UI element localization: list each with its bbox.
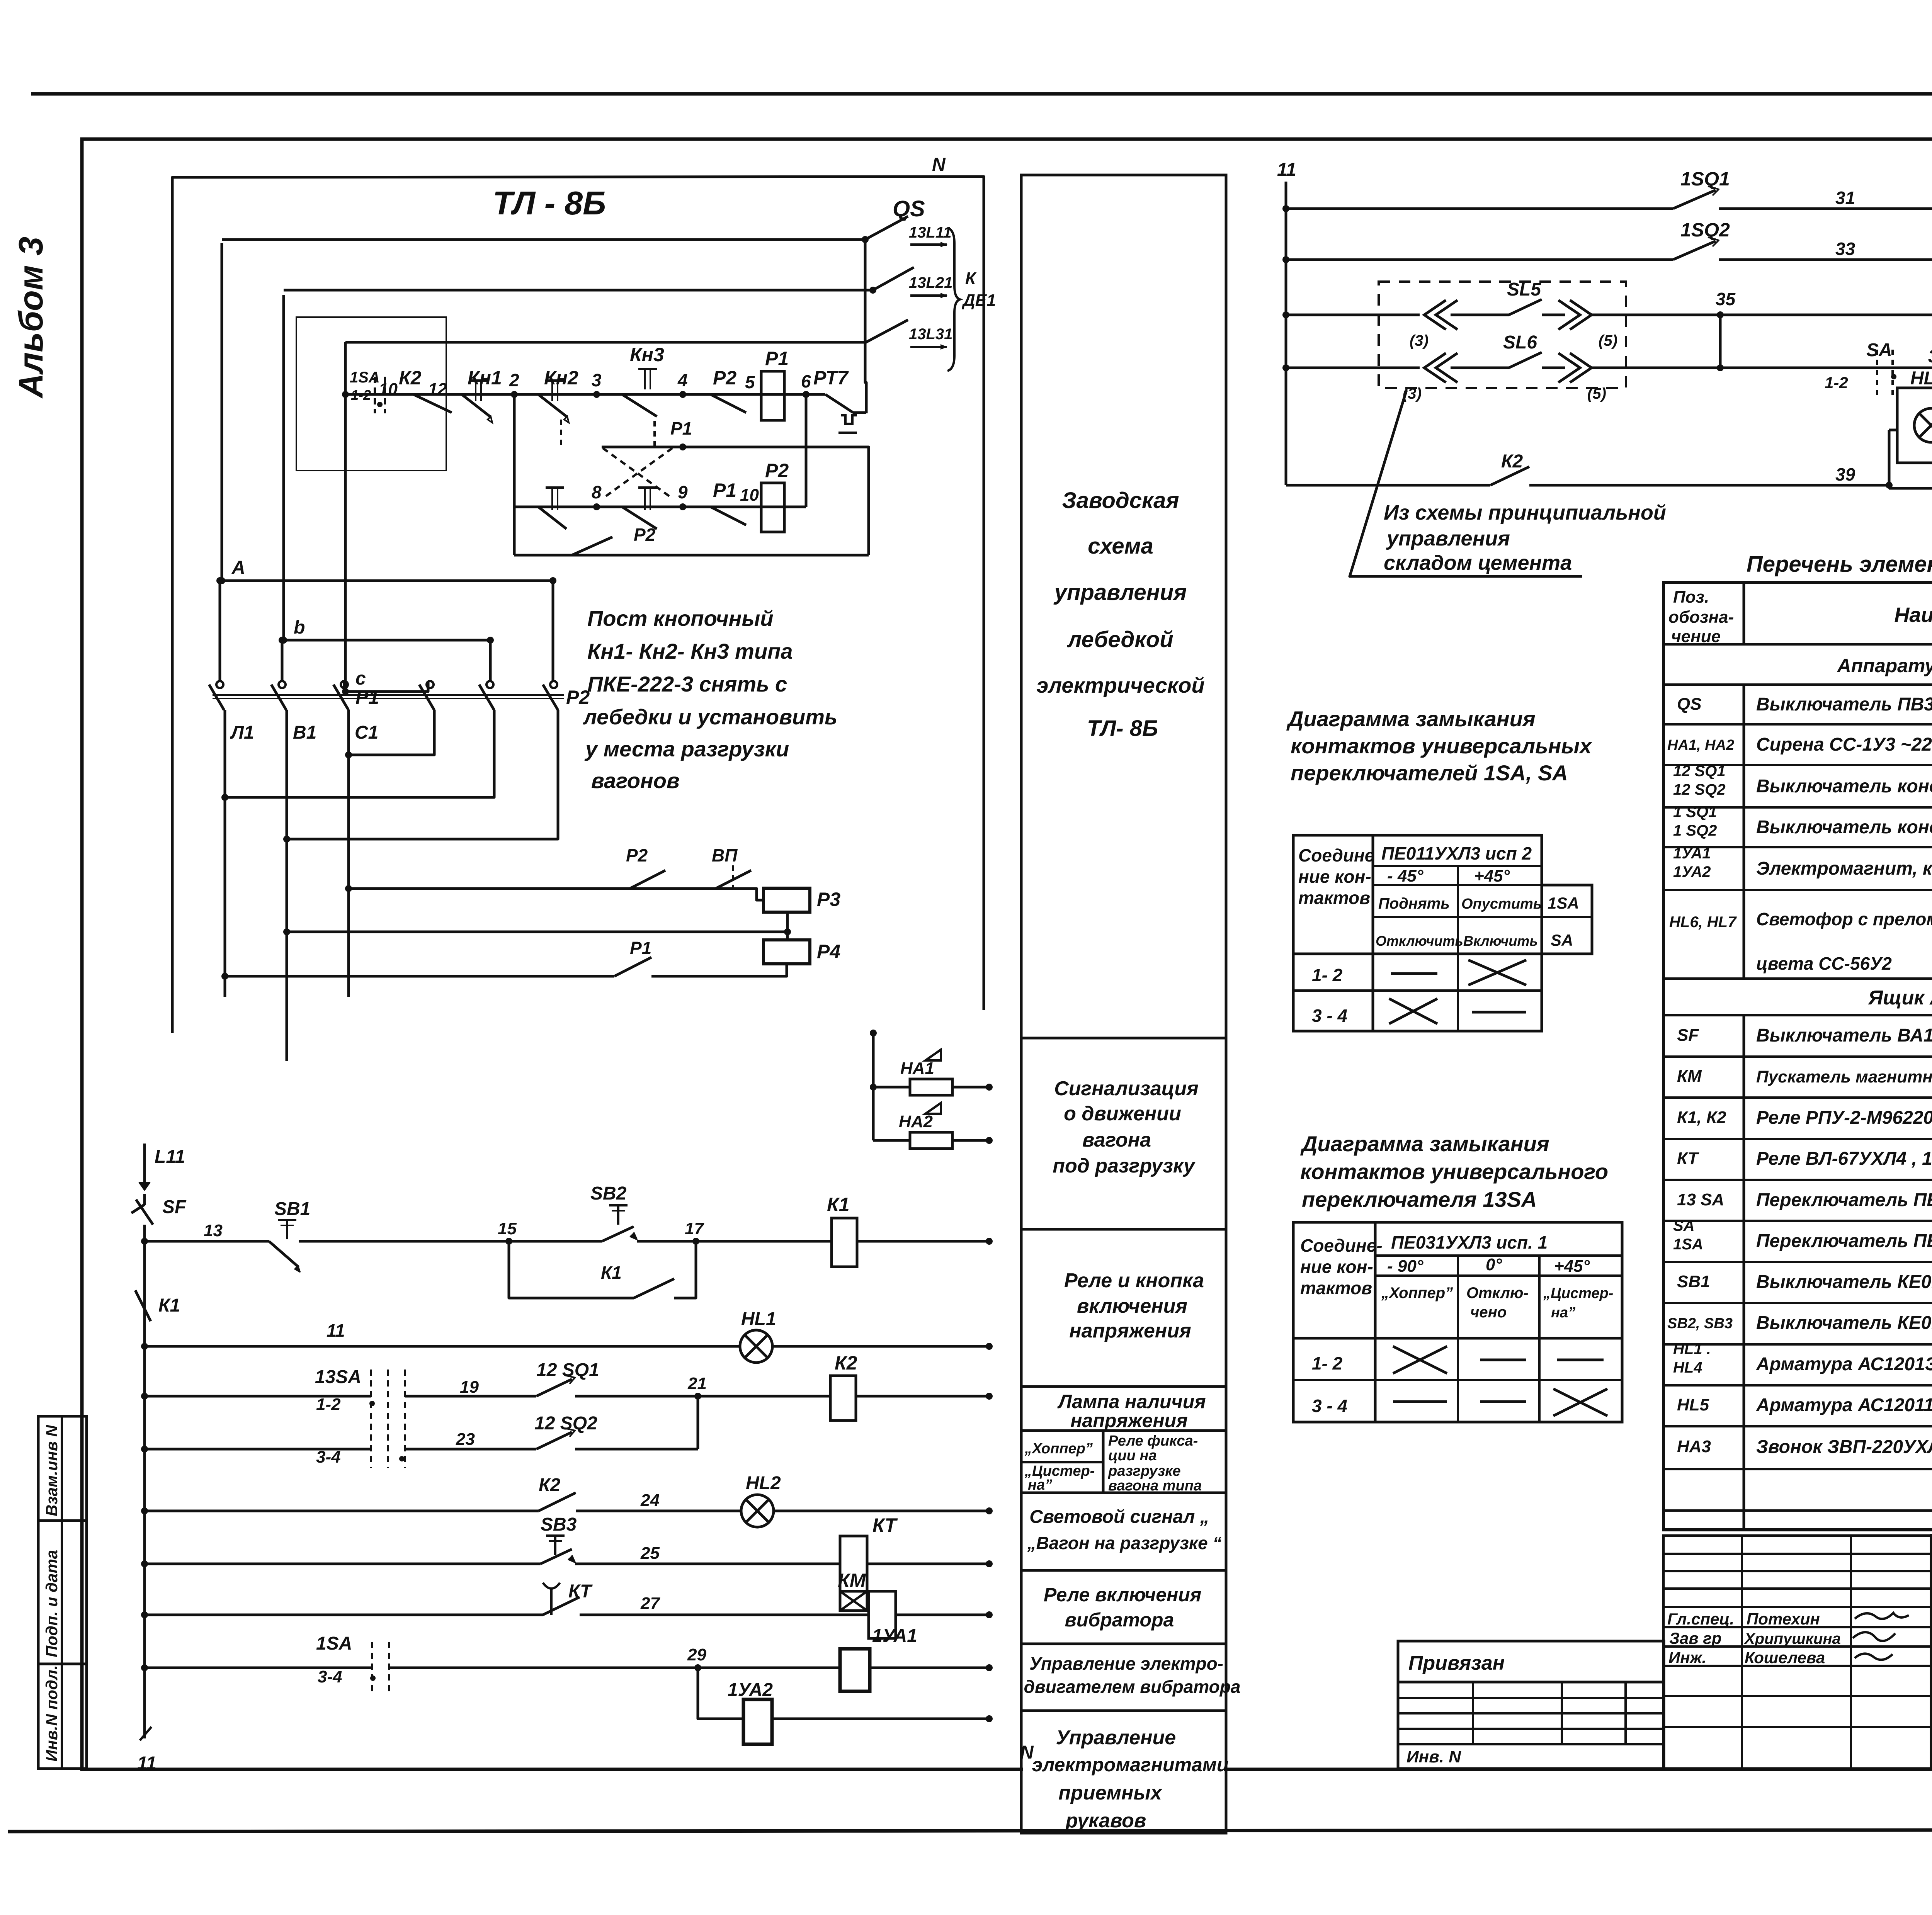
rung 29 1SA 1UA1 (141, 1664, 148, 1671)
svg-text:Р3: Р3 (817, 889, 840, 910)
svg-text:Р2: Р2 (626, 845, 648, 865)
svg-text:13: 13 (204, 1221, 223, 1240)
rung 23 12SQ2 (141, 1446, 148, 1453)
svg-text:SL5: SL5 (1507, 279, 1541, 300)
svg-text:SL6: SL6 (1503, 332, 1537, 353)
svg-text:5: 5 (745, 372, 755, 392)
svg-text:HL5: HL5 (1677, 1395, 1709, 1414)
svg-text:8: 8 (592, 482, 602, 502)
svg-text:„Хоппер”: „Хоппер” (1024, 1441, 1093, 1457)
svg-text:3 - 4: 3 - 4 (1312, 1006, 1347, 1026)
rung 35 SL5 HL5 (1282, 311, 1289, 318)
rung 33 1SQ2 HL4 (1282, 256, 1289, 263)
svg-text:Реле и кнопка: Реле и кнопка (1064, 1269, 1204, 1292)
relay coil P3 (764, 888, 810, 912)
svg-text:лебедкой: лебедкой (1066, 627, 1173, 652)
link 35-37 (1719, 315, 1722, 368)
svg-text:2: 2 (509, 370, 519, 390)
contact P2 interlock row (514, 554, 869, 557)
svg-text:К1: К1 (827, 1194, 850, 1215)
contactor blades (209, 685, 224, 710)
svg-text:HL1 .: HL1 . (1673, 1341, 1711, 1358)
svg-text:с: с (355, 668, 366, 689)
phase B wire (282, 295, 285, 640)
svg-text:1SQ1: 1SQ1 (1680, 168, 1730, 190)
svg-text:Хрипушкина: Хрипушкина (1744, 1630, 1841, 1647)
svg-text:Сирена СС-1У3 ~220В: Сирена СС-1У3 ~220В (1756, 734, 1932, 755)
svg-text:переключателя 13SA: переключателя 13SA (1302, 1187, 1537, 1212)
svg-text:QS: QS (1677, 695, 1702, 714)
node 29 (694, 1664, 701, 1671)
svg-text:3: 3 (592, 370, 602, 390)
svg-text:вагона типа: вагона типа (1108, 1478, 1202, 1494)
callout line from SL box (1350, 390, 1582, 576)
svg-text:складом цемента: складом цемента (1384, 551, 1572, 574)
svg-text:29: 29 (687, 1645, 706, 1664)
svg-text:„Вагон на разгрузке “: „Вагон на разгрузке “ (1027, 1533, 1222, 1553)
lower left rail (143, 1241, 146, 1738)
svg-text:Сигнализация: Сигнализация (1054, 1077, 1199, 1100)
svg-text:вибратора: вибратора (1065, 1609, 1174, 1631)
svg-text:лебедки и установить: лебедки и установить (582, 705, 837, 729)
svg-text:13SA: 13SA (315, 1367, 361, 1387)
svg-text:Пост кнопочный: Пост кнопочный (587, 606, 774, 630)
relay coil P4 (764, 940, 810, 964)
dashed enclosure SL5 SL6 (1379, 282, 1626, 388)
svg-text:вагонов: вагонов (591, 768, 680, 793)
svg-text:НА2: НА2 (899, 1112, 933, 1131)
svg-text:Инв. N: Инв. N (1406, 1747, 1461, 1766)
svg-text:Электромагнит, комплект: Электромагнит, комплект (1756, 858, 1932, 879)
svg-text:37: 37 (1928, 346, 1932, 366)
svg-text:11: 11 (1277, 160, 1296, 180)
relay coil P1 (761, 371, 784, 420)
svg-text:Инв.N подл.: Инв.N подл. (43, 1665, 61, 1762)
svg-text:переключателей 1SA, SA: переключателей 1SA, SA (1291, 761, 1568, 785)
svg-text:контактов универсального: контактов универсального (1300, 1159, 1608, 1184)
privyazan box (1398, 1641, 1664, 1769)
svg-text:К1: К1 (601, 1263, 622, 1283)
svg-text:„Хоппер”: „Хоппер” (1381, 1285, 1453, 1302)
diagram2 marks (1393, 1346, 1447, 1373)
svg-text:у места разгрузки: у места разгрузки (584, 737, 789, 761)
rung 37 SL6 SA HA3 (1282, 364, 1289, 371)
svg-text:Кн1: Кн1 (468, 367, 502, 389)
svg-text:0°: 0° (1486, 1255, 1502, 1274)
svg-text:Из схемы принципиальной: Из схемы принципиальной (1384, 501, 1666, 524)
svg-text:Р1: Р1 (713, 479, 736, 501)
svg-text:ПКЕ-222-3 снять с: ПКЕ-222-3 снять с (587, 672, 787, 696)
svg-text:1- 2: 1- 2 (1312, 965, 1343, 985)
svg-text:13L31: 13L31 (909, 326, 952, 343)
left margin strip (38, 1416, 87, 1769)
node 17 (692, 1238, 699, 1245)
crossover wire pole4 to C1 (349, 710, 434, 755)
svg-text:Альбом 3: Альбом 3 (12, 237, 50, 399)
svg-text:3-4: 3-4 (318, 1667, 342, 1686)
node 35 (1717, 311, 1724, 318)
svg-text:НА3: НА3 (1677, 1437, 1711, 1456)
svg-text:Переключатель ПЕ031УХЛ3 , ис: Переключатель ПЕ031УХЛ3 , исполн. 1 (1756, 1190, 1932, 1210)
svg-text:КТ: КТ (872, 1514, 898, 1536)
svg-text:чено: чено (1470, 1304, 1507, 1321)
node 4 (679, 391, 686, 398)
svg-text:4: 4 (677, 370, 688, 390)
svg-text:Реле ВЛ-67УХЛ4 , 1....10мин,: Реле ВЛ-67УХЛ4 , 1....10мин, ~220В, 50Гц (1756, 1149, 1932, 1169)
svg-text:Зав гр: Зав гр (1669, 1629, 1721, 1647)
svg-text:Опустить: Опустить (1461, 896, 1542, 912)
svg-text:Кн1- Кн2- Кн3 типа: Кн1- Кн2- Кн3 типа (587, 639, 793, 663)
svg-text:(5): (5) (1587, 385, 1606, 402)
svg-text:ции на: ции на (1108, 1448, 1157, 1464)
svg-text:L11: L11 (155, 1147, 185, 1167)
svg-text:12 SQ1: 12 SQ1 (536, 1360, 599, 1380)
svg-text:(5): (5) (1599, 332, 1617, 349)
svg-text:под разгрузку: под разгрузку (1053, 1155, 1196, 1177)
svg-text:SB1: SB1 (1677, 1272, 1710, 1291)
svg-text:Перечень элементов принципиа: Перечень элементов принципиальной схемы (1747, 552, 1932, 577)
rung 24 K2 HL2 KTcoil (141, 1507, 148, 1514)
svg-text:ВП: ВП (712, 845, 738, 865)
svg-text:„Цистер-: „Цистер- (1543, 1285, 1613, 1302)
svg-text:21: 21 (687, 1374, 707, 1393)
svg-text:SА: SА (1673, 1217, 1695, 1234)
svg-text:12 SQ2: 12 SQ2 (534, 1413, 597, 1434)
svg-text:Управление электро-: Управление электро- (1029, 1653, 1223, 1674)
relay coil P2 (761, 483, 784, 532)
svg-text:1УА1: 1УА1 (872, 1626, 917, 1646)
svg-text:1УА2: 1УА2 (728, 1680, 773, 1700)
svg-text:Реле включения: Реле включения (1044, 1584, 1201, 1606)
crossover wire pole5 to L1 (225, 710, 494, 797)
svg-text:Переключатель ПЕ011УХЛ3 , и: Переключатель ПЕ011УХЛ3 , исполн. 2 (1756, 1231, 1932, 1251)
rung 27 KT KMcoil (141, 1611, 148, 1618)
siren branch vertical (872, 1033, 875, 1140)
svg-text:11: 11 (137, 1753, 156, 1774)
svg-text:на”: на” (1028, 1477, 1052, 1493)
svg-text:НА1, НА2: НА1, НА2 (1667, 737, 1734, 753)
svg-text:N: N (932, 155, 946, 175)
svg-text:SF: SF (1677, 1026, 1699, 1045)
svg-text:12 SQ1: 12 SQ1 (1673, 763, 1726, 780)
svg-text:Р1: Р1 (355, 686, 379, 708)
svg-text:b: b (294, 617, 305, 638)
svg-text:КМ: КМ (1677, 1067, 1702, 1086)
svg-text:разгрузке: разгрузке (1108, 1463, 1181, 1479)
svg-text:А: А (231, 557, 245, 578)
svg-text:Диаграмма замыкания: Диаграмма замыкания (1286, 707, 1536, 731)
svg-text:НА1: НА1 (900, 1059, 934, 1078)
svg-text:контактов универсальных: контактов универсальных (1291, 734, 1593, 758)
svg-text:включения: включения (1077, 1295, 1187, 1317)
svg-text:Отклю-: Отклю- (1466, 1285, 1529, 1302)
svg-text:Звонок ЗВП-220УХЛ5 , ~220В: Звонок ЗВП-220УХЛ5 , ~220В (1756, 1437, 1932, 1457)
svg-text:Р1: Р1 (630, 938, 651, 958)
svg-text:1-2: 1-2 (316, 1395, 341, 1414)
svg-text:9: 9 (678, 482, 688, 502)
phase output V1 (286, 710, 288, 1061)
svg-text:тактов: тактов (1298, 888, 1370, 908)
svg-text:электромагнитами: электромагнитами (1032, 1754, 1229, 1776)
rung 31 1SQ1 HL3 (1282, 205, 1289, 212)
svg-text:12: 12 (428, 380, 447, 399)
svg-text:К2: К2 (399, 367, 422, 389)
svg-text:Р2: Р2 (765, 460, 789, 481)
svg-text:цвета СС-56У2: цвета СС-56У2 (1756, 953, 1892, 974)
svg-text:Подп. и дата: Подп. и дата (43, 1550, 61, 1657)
svg-text:схема: схема (1088, 534, 1153, 559)
svg-text:Поз.: Поз. (1673, 588, 1709, 607)
node 9 (679, 503, 686, 510)
svg-text:К2: К2 (539, 1475, 561, 1495)
phase output C1 (347, 710, 350, 997)
svg-text:ние кон-: ние кон- (1300, 1257, 1373, 1277)
svg-text:Выключатель КЕ011У3, исп 4,: Выключатель КЕ011У3, исп 4, черный (1756, 1313, 1932, 1333)
button Kn3 second (638, 486, 657, 489)
brace K DE1 (947, 228, 960, 371)
svg-text:1УА2: 1УА2 (1673, 863, 1711, 880)
svg-text:HL6, HL7: HL6, HL7 (1669, 914, 1737, 931)
rung 39 K2 HL7 (1286, 484, 1490, 487)
page top border line (31, 92, 1932, 96)
svg-text:1-2: 1-2 (351, 387, 371, 403)
svg-text:15: 15 (498, 1219, 517, 1238)
privyazan grid (1398, 1697, 1663, 1699)
svg-text:вагона: вагона (1082, 1129, 1151, 1151)
rung 1 wire (345, 393, 825, 396)
svg-text:напряжения: напряжения (1070, 1410, 1187, 1431)
node 6 (803, 391, 810, 398)
svg-text:Светофор с преломлятелем крас: Светофор с преломлятелем красного (1756, 909, 1932, 929)
svg-text:SB2, SB3: SB2, SB3 (1667, 1315, 1733, 1332)
diagram1 marks (1391, 972, 1437, 975)
svg-text:39: 39 (1835, 464, 1855, 484)
svg-text:+45°: +45° (1554, 1257, 1590, 1276)
rung 19 12SQ1 K2coil (141, 1393, 148, 1400)
node 8 (593, 503, 600, 510)
svg-text:Л1: Л1 (230, 722, 254, 743)
svg-text:Реле фикса-: Реле фикса- (1108, 1433, 1198, 1449)
svg-text:31: 31 (1835, 188, 1855, 208)
rung 2 wire (514, 506, 806, 508)
contactor linkage bar (213, 694, 564, 696)
svg-text:HL6: HL6 (1910, 368, 1932, 389)
wire A to contactor (222, 581, 553, 681)
svg-text:Выключатель ВА14-26-14 20УХЛ4: Выключатель ВА14-26-14 20УХЛ4 , Iр 1,6А (1756, 1025, 1932, 1046)
svg-text:Отключить: Отключить (1376, 933, 1463, 949)
interlock wire 1157 (602, 447, 869, 555)
wire c to contactor (345, 681, 428, 692)
main title block (1932, 1536, 1932, 1769)
svg-text:Взам.инв N: Взам.инв N (43, 1424, 61, 1516)
svg-text:ние кон-: ние кон- (1298, 867, 1371, 887)
svg-text:24: 24 (640, 1491, 660, 1510)
svg-text:1SA: 1SA (1548, 894, 1579, 912)
crossover wire pole6 to V1 (287, 710, 558, 839)
svg-text:SF: SF (162, 1197, 187, 1217)
svg-text:SA: SA (1551, 931, 1573, 949)
svg-text:1SА: 1SА (1673, 1236, 1703, 1253)
svg-text:ПЕ011УХЛ3 исп 2: ПЕ011УХЛ3 исп 2 (1381, 843, 1532, 863)
svg-text:К2: К2 (1501, 451, 1523, 472)
node A (218, 577, 225, 584)
svg-text:Соедине-: Соедине- (1300, 1235, 1383, 1256)
svg-text:управления: управления (1053, 580, 1187, 605)
svg-text:Арматура АС1201ЗУ2 , ~220В: Арматура АС1201ЗУ2 , ~220В (1756, 1354, 1932, 1375)
svg-text:Р4: Р4 (817, 941, 840, 962)
svg-text:КТ: КТ (568, 1581, 593, 1602)
svg-text:Управление: Управление (1056, 1726, 1176, 1749)
svg-text:КТ: КТ (1677, 1149, 1699, 1168)
rung 25 SB3 KTcoil (141, 1560, 148, 1567)
svg-text:ДЕ1: ДЕ1 (961, 291, 996, 310)
svg-text:SB3: SB3 (541, 1514, 577, 1535)
svg-text:Арматура АС12011У2 , ~220В: Арматура АС12011У2 , ~220В (1756, 1395, 1932, 1415)
svg-text:К: К (965, 269, 977, 288)
svg-text:- 45°: - 45° (1387, 867, 1423, 885)
svg-text:Соедине: Соедине (1298, 845, 1374, 865)
svg-text:Световой сигнал „: Световой сигнал „ (1029, 1507, 1209, 1527)
svg-text:К2: К2 (835, 1352, 857, 1374)
middle split cell divider (1102, 1431, 1105, 1493)
svg-text:ПЕ031УХЛ3 исп. 1: ПЕ031УХЛ3 исп. 1 (1391, 1232, 1548, 1252)
svg-text:1SA: 1SA (316, 1633, 352, 1654)
svg-text:Пускатель магнитный ПМЛ-1100: Пускатель магнитный ПМЛ-110004Б, ~220В (1756, 1067, 1932, 1086)
svg-text:Выключатель КЕ011У3 , исп 5,: Выключатель КЕ011У3 , исп 5, красный (1756, 1272, 1932, 1292)
svg-text:Заводская: Заводская (1062, 488, 1179, 513)
svg-text:Наименование: Наименование (1894, 603, 1932, 627)
phase output L1 (224, 710, 226, 997)
svg-text:управления: управления (1386, 527, 1510, 550)
svg-text:25: 25 (640, 1544, 660, 1563)
svg-text:Кошелева: Кошелева (1745, 1648, 1825, 1667)
svg-text:С1: С1 (355, 722, 378, 743)
phase A wire (221, 243, 223, 581)
node 2 (511, 391, 518, 398)
svg-text:13L21: 13L21 (909, 274, 952, 291)
contactor P1 poles (216, 681, 223, 688)
svg-text:Кн2: Кн2 (544, 367, 578, 389)
svg-text:Реле РПУ-2-М96220У3Б, ~220В: Реле РПУ-2-М96220У3Б, ~220В (1756, 1108, 1932, 1128)
diagram table 1 (1293, 835, 1542, 1031)
svg-text:3-4: 3-4 (316, 1448, 341, 1466)
svg-text:(3): (3) (1410, 332, 1429, 349)
svg-text:10: 10 (740, 486, 759, 505)
svg-text:HL2: HL2 (746, 1473, 781, 1494)
svg-text:двигателем вибратора: двигателем вибратора (1024, 1677, 1241, 1697)
svg-text:HL4: HL4 (1673, 1359, 1702, 1376)
middle column box (1021, 175, 1226, 1833)
svg-text:33: 33 (1835, 239, 1855, 259)
svg-text:Выключатель конечный, комплек: Выключатель конечный, комплект (1756, 817, 1932, 838)
contact P1 lower row (225, 975, 614, 978)
rung SB1 K1coil (141, 1238, 148, 1245)
svg-text:17: 17 (685, 1219, 704, 1238)
svg-text:1-2: 1-2 (1825, 374, 1848, 392)
page bottom line (8, 1830, 1932, 1832)
node 21 (694, 1393, 701, 1400)
svg-text:SB2: SB2 (590, 1183, 627, 1204)
svg-text:Р2: Р2 (634, 525, 656, 545)
contactor P2 poles (427, 681, 434, 688)
svg-text:11: 11 (327, 1320, 345, 1341)
svg-text:1 SQ2: 1 SQ2 (1673, 822, 1717, 839)
wire to relay P4 (786, 912, 789, 940)
svg-text:Лампа наличия: Лампа наличия (1057, 1391, 1206, 1412)
rung 11 HL1 (141, 1343, 148, 1350)
svg-text:Р2: Р2 (713, 367, 736, 389)
svg-text:QS: QS (893, 196, 925, 221)
button Kn2 second (538, 507, 566, 529)
svg-text:Выключатель конечный, комплект: Выключатель конечный, комплект (1756, 776, 1932, 797)
svg-text:SA: SA (1866, 340, 1892, 360)
svg-text:ТЛ- 8Б: ТЛ- 8Б (1087, 716, 1158, 741)
svg-text:19: 19 (460, 1378, 479, 1397)
svg-text:35: 35 (1716, 289, 1736, 309)
svg-text:В1: В1 (293, 722, 316, 743)
svg-text:тактов: тактов (1300, 1278, 1372, 1298)
svg-text:Инж.: Инж. (1668, 1648, 1706, 1667)
svg-text:К1: К1 (158, 1295, 180, 1316)
svg-text:Поднять: Поднять (1378, 895, 1450, 912)
svg-text:электрической: электрической (1036, 673, 1204, 697)
node 15 (505, 1238, 512, 1245)
svg-text:Р1: Р1 (670, 418, 692, 438)
svg-text:Кн3: Кн3 (630, 344, 664, 365)
node b (280, 637, 287, 644)
svg-text:Включить: Включить (1463, 933, 1538, 949)
svg-text:6: 6 (801, 371, 811, 391)
svg-text:ТЛ - 8Б: ТЛ - 8Б (493, 185, 606, 222)
svg-text:SB1: SB1 (274, 1199, 310, 1219)
node c (342, 688, 349, 695)
svg-text:Диаграмма замыкания: Диаграмма замыкания (1300, 1132, 1549, 1156)
svg-text:13L11: 13L11 (909, 224, 951, 241)
svg-text:приемных: приемных (1058, 1782, 1162, 1804)
svg-text:Ящик АКSН1: Ящик АКSН1 (1867, 987, 1932, 1009)
diagram table 2 (1293, 1222, 1622, 1422)
svg-text:Аппаратура, устанавливаемая п: Аппаратура, устанавливаемая по месту (1837, 655, 1932, 676)
svg-text:1 SQ1: 1 SQ1 (1673, 804, 1717, 821)
signature columns block (1663, 1536, 1932, 1769)
svg-text:- 90°: - 90° (1387, 1257, 1423, 1276)
svg-text:о движении: о движении (1064, 1103, 1181, 1125)
svg-text:1SQ2: 1SQ2 (1680, 219, 1730, 241)
svg-text:12 SQ2: 12 SQ2 (1673, 781, 1726, 798)
QS vertical feeder (865, 240, 866, 413)
svg-text:К1, К2: К1, К2 (1677, 1108, 1726, 1127)
svg-text:3 - 4: 3 - 4 (1312, 1396, 1347, 1416)
svg-text:КМ: КМ (838, 1570, 866, 1591)
HL6 row wire (1889, 429, 1897, 432)
wire to relay P3 (349, 889, 764, 900)
svg-text:напряжения: напряжения (1069, 1320, 1191, 1342)
svg-text:чение: чение (1671, 627, 1721, 646)
svg-text:Р1: Р1 (765, 348, 789, 369)
svg-text:13 SA: 13 SA (1677, 1190, 1724, 1209)
phase C wire / ladder top rail (344, 342, 347, 692)
svg-text:HL1: HL1 (741, 1309, 776, 1329)
node 39 riser to HL6 (1886, 482, 1893, 489)
svg-text:27: 27 (640, 1594, 660, 1613)
svg-text:23: 23 (456, 1430, 475, 1449)
svg-text:на”: на” (1551, 1305, 1575, 1321)
svg-text:1УА1: 1УА1 (1673, 845, 1711, 862)
cell shema principialnaya (1932, 1706, 1932, 1709)
svg-text:рукавов: рукавов (1065, 1810, 1146, 1832)
inner enclosure box 1SA area (296, 317, 446, 471)
frame gap at middle column (1023, 1765, 1225, 1774)
